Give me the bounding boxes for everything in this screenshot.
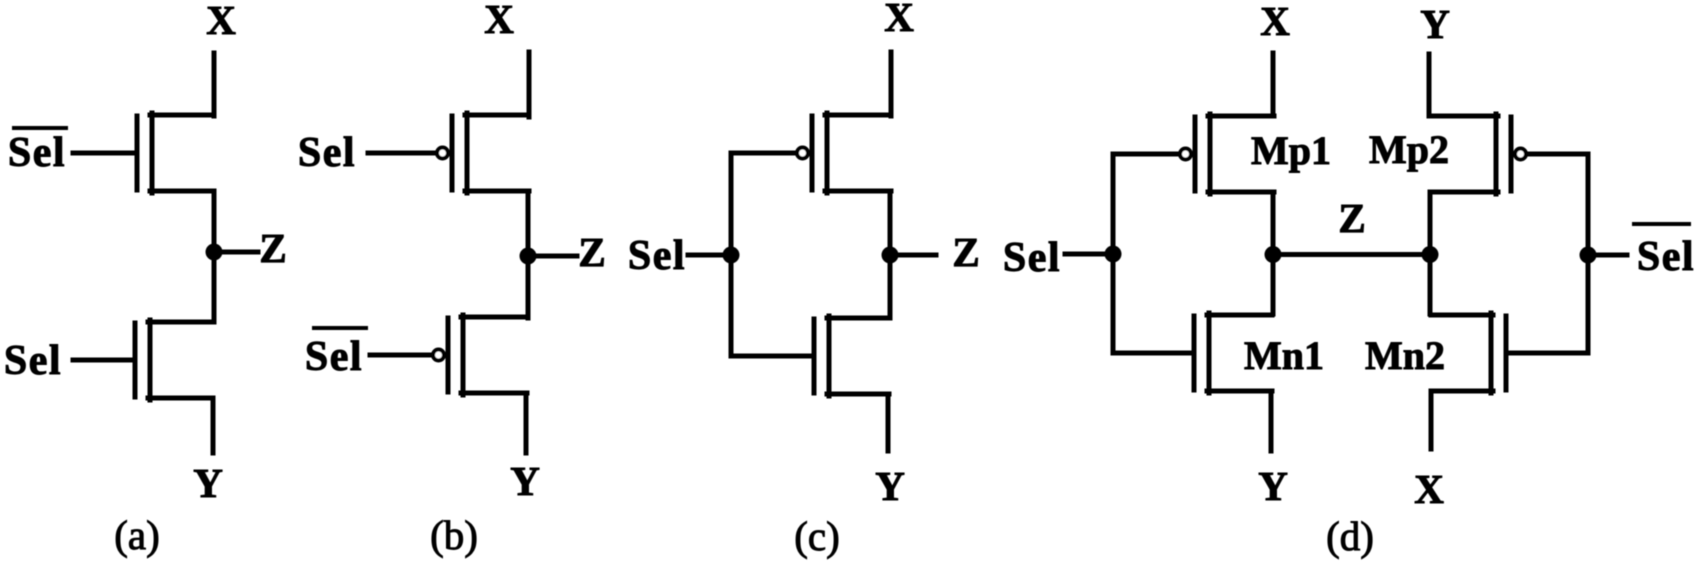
svg-text:Sel: Sel [1003,235,1061,281]
svg-text:Sel: Sel [1637,234,1695,280]
svg-text:Y: Y [1258,463,1288,509]
svg-text:Mn1: Mn1 [1244,333,1324,378]
svg-text:(b): (b) [430,512,478,558]
svg-text:Sel: Sel [298,130,356,176]
svg-text:X: X [1260,0,1290,44]
svg-text:Y: Y [875,463,905,509]
svg-text:Y: Y [510,458,540,504]
svg-text:Z: Z [1338,195,1365,241]
svg-text:X: X [884,0,914,40]
svg-text:Sel: Sel [4,338,62,384]
svg-text:(c): (c) [794,513,840,559]
svg-text:Sel: Sel [628,233,686,279]
svg-text:(d): (d) [1326,513,1374,559]
svg-text:Z: Z [578,229,605,275]
svg-text:Z: Z [259,225,286,271]
svg-text:Y: Y [1420,1,1450,47]
svg-text:Y: Y [193,460,223,506]
svg-text:Mp2: Mp2 [1369,127,1449,172]
svg-text:X: X [206,0,236,43]
svg-text:X: X [1414,466,1444,512]
svg-text:Mn2: Mn2 [1365,333,1445,378]
svg-text:(a): (a) [114,512,160,558]
svg-text:Sel: Sel [305,334,363,380]
svg-text:Sel: Sel [8,130,66,176]
svg-text:Mp1: Mp1 [1251,128,1331,173]
svg-text:X: X [484,0,514,42]
svg-text:Z: Z [952,229,979,275]
